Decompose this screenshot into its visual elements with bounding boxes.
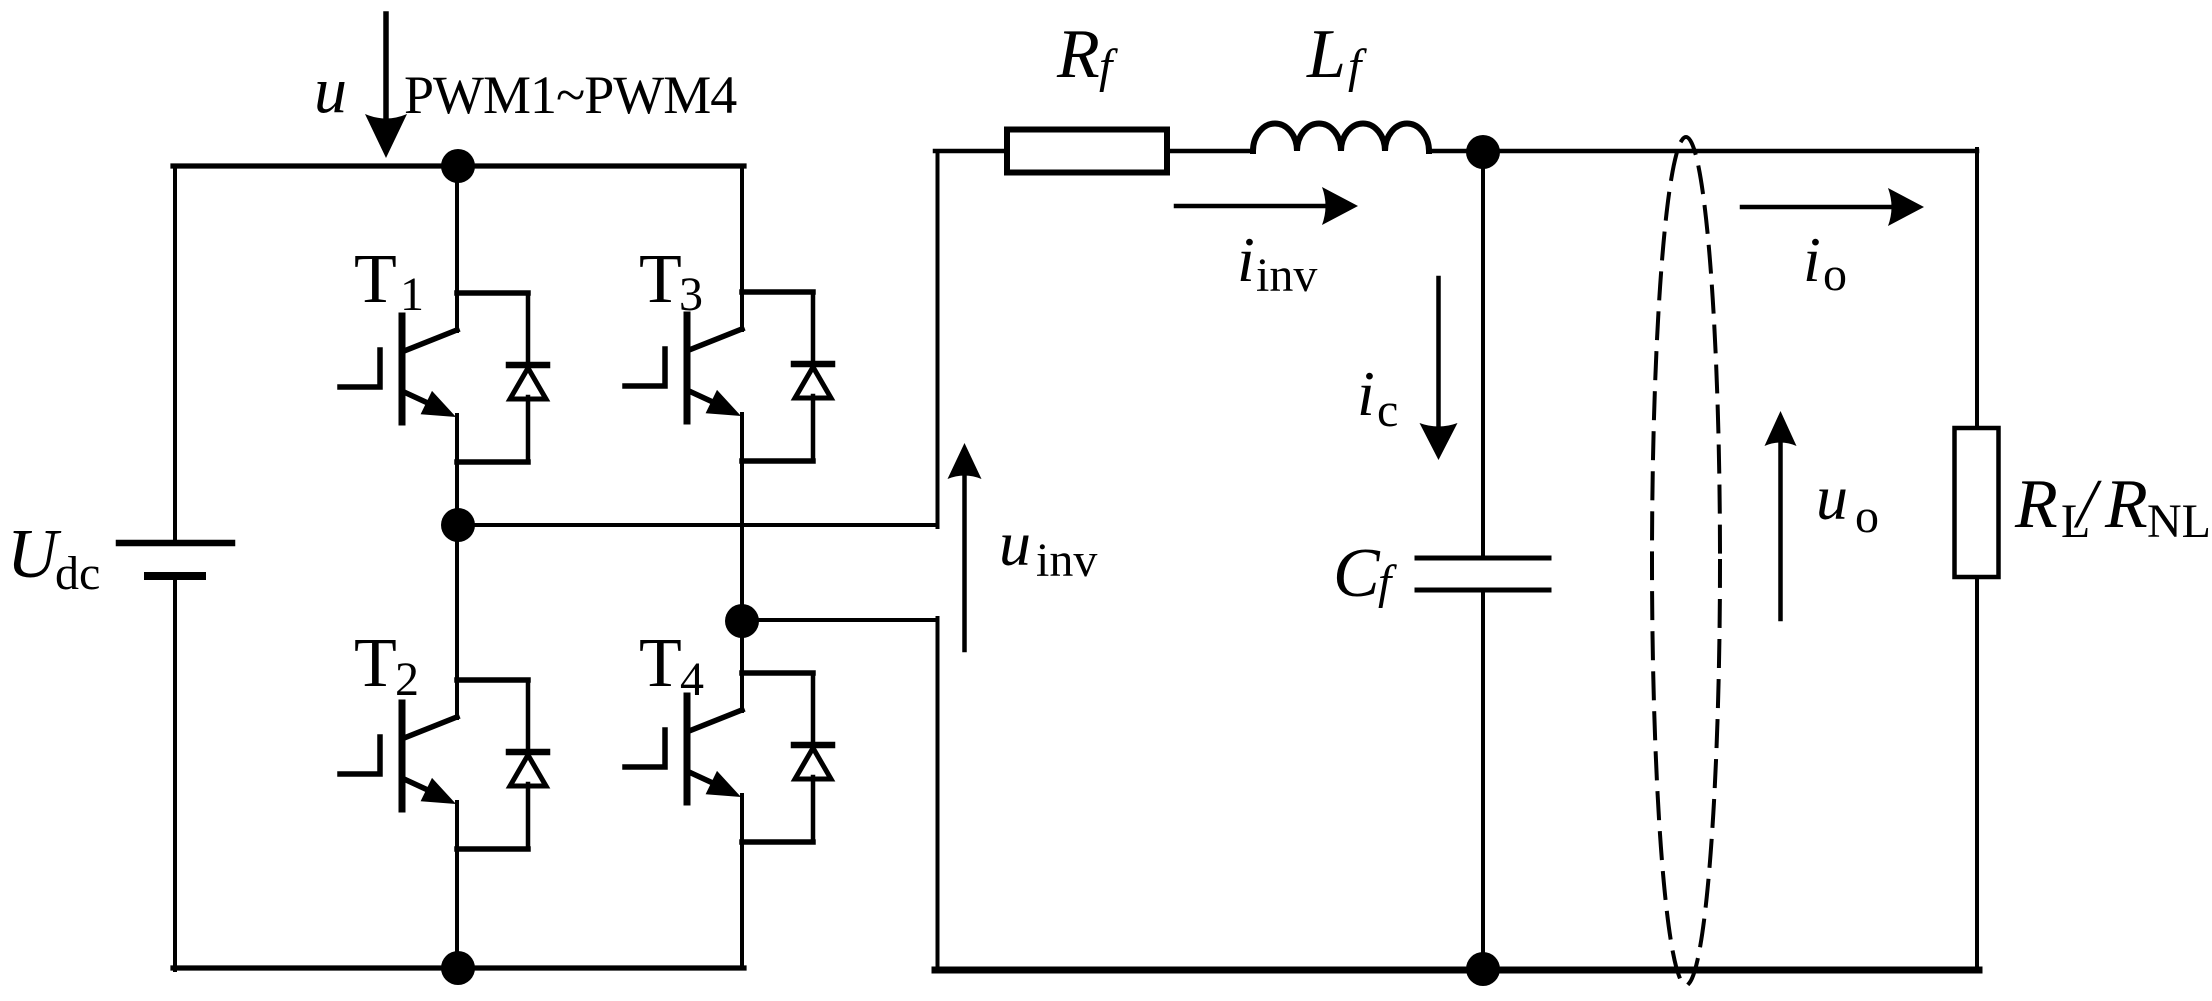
label i_o [1803, 224, 1847, 301]
svg-text:inv: inv [1036, 534, 1097, 587]
node: Lf-Cf junction [1466, 135, 1500, 169]
wire: battery positive lead [173, 166, 177, 543]
transistor T3 emitter branch [742, 458, 813, 464]
label i_inv [1237, 224, 1317, 302]
transistor T3 body [625, 315, 742, 421]
inductor Lf [1253, 124, 1429, 152]
transistor T1 body [340, 316, 457, 422]
wire: output bottom rail [935, 967, 1979, 974]
svg-text:c: c [1377, 384, 1398, 437]
svg-text:dc: dc [55, 547, 100, 600]
arrow: current i_c [1420, 278, 1458, 460]
transistor T3 collector branch [742, 289, 813, 295]
wire: bridge top rail [173, 163, 744, 168]
wire: load top lead [1975, 149, 1979, 428]
svg-text:2: 2 [395, 653, 419, 706]
transistor T4 emitter branch [742, 839, 813, 845]
node: right leg midpoint B [725, 604, 759, 638]
svg-text:T: T [639, 625, 682, 702]
svg-text:3: 3 [679, 268, 703, 321]
wire: battery negative lead [173, 576, 177, 970]
transistor T2 body [340, 703, 457, 809]
diode D4 (antiparallel with T4) [794, 673, 832, 842]
label PWM1~PWM4 [404, 65, 737, 125]
battery Udc [119, 543, 232, 576]
capacitor Cf [1417, 558, 1549, 590]
label T2 [354, 625, 419, 706]
svg-text:L: L [1306, 16, 1346, 93]
svg-text:4: 4 [680, 653, 704, 706]
svg-text:i: i [1357, 358, 1375, 429]
wire: Lf to load rail [1429, 149, 1977, 154]
wire: left leg midpoint link [455, 415, 459, 718]
node: left leg midpoint A [441, 508, 475, 542]
label i_c [1357, 358, 1398, 437]
svg-text:u: u [999, 508, 1031, 579]
svg-text:inv: inv [1256, 249, 1317, 302]
transistor T1 collector branch [457, 290, 528, 296]
svg-text:R: R [2104, 466, 2148, 543]
arrow: current i_o [1742, 188, 1924, 226]
node: Cf-bottom rail junction [1466, 952, 1500, 986]
svg-text:T: T [354, 625, 397, 702]
svg-text:PWM1~PWM4: PWM1~PWM4 [404, 65, 737, 125]
diode D1 (antiparallel with T1) [509, 293, 547, 462]
label T3 [639, 241, 703, 321]
resistor RL/RNL [1955, 428, 1999, 577]
label Cf [1333, 535, 1397, 612]
measurement boundary (dashed ellipse) [1652, 137, 1720, 985]
svg-text:1: 1 [400, 268, 424, 321]
transistor T2 collector branch [457, 677, 528, 683]
arrow: current i_inv [1176, 187, 1358, 225]
label RL/RNL [2014, 466, 2211, 548]
wire: filter input [935, 149, 1007, 154]
svg-text:u: u [314, 54, 347, 127]
transistor T4 collector branch [742, 670, 813, 676]
transistor T2 emitter branch [457, 846, 528, 852]
svg-text:U: U [7, 516, 62, 593]
svg-text:o: o [1855, 490, 1879, 543]
wire: Cf top lead [1481, 151, 1485, 558]
svg-text:NL: NL [2147, 495, 2211, 548]
label u_o [1816, 462, 1879, 543]
svg-text:R: R [2014, 466, 2058, 543]
wire: T4 emitter lead [740, 795, 744, 968]
label Udc [7, 516, 100, 600]
wire: T3 collector lead [740, 166, 744, 330]
node: bottom rail junction [441, 951, 475, 985]
wire: load bottom lead [1975, 577, 1979, 971]
svg-text:T: T [639, 241, 682, 318]
svg-text:i: i [1237, 224, 1255, 295]
label u (drive signal) [314, 54, 347, 127]
label Lf [1306, 16, 1367, 93]
label T4 [639, 625, 704, 706]
svg-text:u: u [1816, 462, 1848, 533]
svg-text:o: o [1823, 248, 1847, 301]
wire: bridge bottom rail [173, 965, 744, 970]
arrow: voltage u_inv [948, 443, 982, 650]
svg-text:T: T [354, 241, 397, 318]
wire: bridge output B to bottom rail (u_inv -) [742, 618, 938, 970]
diode D3 (antiparallel with T3) [794, 292, 832, 461]
wire: right leg midpoint link [740, 414, 744, 711]
transistor T1 emitter branch [457, 459, 528, 465]
label u_inv [999, 508, 1097, 587]
transistor T4 body [625, 696, 742, 802]
wire: Cf bottom lead [1481, 590, 1485, 970]
svg-text:C: C [1333, 535, 1381, 612]
label T1 [354, 241, 424, 321]
arrow: PWM drive input u [365, 14, 407, 158]
wire: T2 emitter lead [455, 802, 459, 968]
wire: bridge output A to filter (u_inv +) [457, 151, 938, 527]
node: PWM/top-rail junction [441, 149, 475, 183]
svg-text:R: R [1056, 16, 1100, 93]
diode D2 (antiparallel with T2) [509, 680, 547, 849]
resistor Rf [1007, 130, 1167, 173]
wire: T1 collector lead [455, 166, 459, 331]
svg-text:i: i [1803, 224, 1821, 295]
arrow: voltage u_o [1765, 411, 1797, 619]
label Rf [1056, 16, 1118, 93]
wire: Rf to Lf [1167, 149, 1253, 154]
